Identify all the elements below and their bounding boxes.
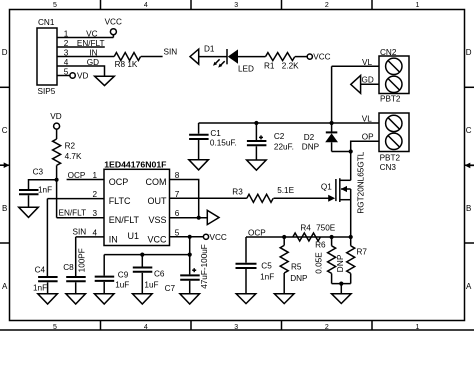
svg-text:PBT2: PBT2 xyxy=(380,95,401,104)
svg-text:VCC: VCC xyxy=(147,234,167,244)
svg-text:GD: GD xyxy=(362,76,374,85)
svg-text:22uF.: 22uF. xyxy=(274,142,294,151)
svg-text:2: 2 xyxy=(325,324,329,331)
svg-text:1: 1 xyxy=(415,2,419,9)
svg-text:1uF: 1uF xyxy=(144,281,158,290)
svg-text:R8 1K: R8 1K xyxy=(115,60,138,69)
svg-text:750E: 750E xyxy=(316,223,336,232)
svg-text:4: 4 xyxy=(144,324,148,331)
svg-text:GD: GD xyxy=(87,58,99,67)
svg-text:SIN: SIN xyxy=(164,48,178,57)
svg-text:OCP: OCP xyxy=(248,229,266,238)
svg-text:1nF: 1nF xyxy=(33,283,47,292)
svg-text:3: 3 xyxy=(92,209,97,218)
svg-text:4: 4 xyxy=(92,228,97,237)
svg-text:VD: VD xyxy=(50,112,61,121)
svg-text:CN3: CN3 xyxy=(380,163,397,172)
svg-text:D1: D1 xyxy=(204,45,215,54)
svg-text:OCP: OCP xyxy=(68,171,86,180)
svg-text:SIN: SIN xyxy=(73,228,87,237)
svg-text:D: D xyxy=(2,48,8,57)
svg-text:1nF: 1nF xyxy=(38,185,52,194)
svg-text:4: 4 xyxy=(64,58,69,67)
svg-text:2: 2 xyxy=(92,190,97,199)
svg-text:EN/FLT: EN/FLT xyxy=(109,215,140,225)
svg-text:VSS: VSS xyxy=(148,215,166,225)
svg-text:A: A xyxy=(466,282,472,291)
svg-text:0.15uF.: 0.15uF. xyxy=(210,139,237,148)
svg-text:1: 1 xyxy=(415,324,419,331)
svg-text:1: 1 xyxy=(92,171,97,180)
svg-text:IN: IN xyxy=(109,234,118,244)
svg-text:7: 7 xyxy=(175,190,180,199)
svg-text:C7: C7 xyxy=(165,284,176,293)
svg-text:OP: OP xyxy=(362,132,374,141)
svg-text:R7: R7 xyxy=(357,248,368,257)
svg-text:C: C xyxy=(2,126,8,135)
svg-text:PBT2: PBT2 xyxy=(380,154,401,163)
svg-text:B: B xyxy=(466,204,471,213)
svg-text:VCC: VCC xyxy=(313,53,330,62)
svg-text:5: 5 xyxy=(175,228,180,237)
svg-text:R5: R5 xyxy=(291,263,302,272)
svg-text:EN/FLT: EN/FLT xyxy=(59,209,87,218)
svg-text:IN: IN xyxy=(89,48,97,57)
svg-text:100PF: 100PF xyxy=(77,248,86,272)
svg-text:C4: C4 xyxy=(35,266,46,275)
svg-text:U1: U1 xyxy=(128,231,140,241)
svg-text:4.7K: 4.7K xyxy=(65,152,82,161)
svg-text:5: 5 xyxy=(53,324,57,331)
svg-text:8: 8 xyxy=(175,171,180,180)
svg-text:VD: VD xyxy=(77,71,88,80)
svg-text:VL: VL xyxy=(362,114,372,123)
svg-text:R1: R1 xyxy=(264,62,275,71)
svg-text:1ED44176N01F: 1ED44176N01F xyxy=(104,160,166,170)
svg-text:R3: R3 xyxy=(232,188,243,197)
svg-text:EN/FLT: EN/FLT xyxy=(77,39,105,48)
svg-text:C2: C2 xyxy=(274,132,285,141)
svg-text:VC: VC xyxy=(86,29,97,38)
svg-text:3: 3 xyxy=(234,2,238,9)
svg-text:1: 1 xyxy=(64,29,69,38)
svg-text:2: 2 xyxy=(325,2,329,9)
svg-text:Q1: Q1 xyxy=(321,183,332,192)
svg-text:4: 4 xyxy=(144,2,148,9)
svg-text:1nF: 1nF xyxy=(260,272,274,281)
svg-text:R2: R2 xyxy=(65,142,76,151)
svg-text:VCC: VCC xyxy=(105,18,122,27)
svg-text:D2: D2 xyxy=(304,133,315,142)
svg-text:R6: R6 xyxy=(315,241,326,250)
svg-text:3: 3 xyxy=(234,324,238,331)
svg-text:DNP: DNP xyxy=(302,143,320,152)
svg-text:C9: C9 xyxy=(118,271,129,280)
svg-text:R4: R4 xyxy=(300,223,311,232)
svg-text:OCP: OCP xyxy=(109,177,129,187)
svg-text:RGT20NL65GTL: RGT20NL65GTL xyxy=(357,151,366,213)
svg-text:C3: C3 xyxy=(33,168,44,177)
svg-text:2: 2 xyxy=(64,39,69,48)
svg-text:SIP5: SIP5 xyxy=(38,87,56,96)
svg-text:FLTC: FLTC xyxy=(109,196,131,206)
svg-text:OUT: OUT xyxy=(148,196,168,206)
svg-text:47uF-100uF: 47uF-100uF xyxy=(200,244,209,289)
svg-text:CN1: CN1 xyxy=(38,18,55,27)
svg-text:2.2K: 2.2K xyxy=(282,62,299,71)
svg-text:C5: C5 xyxy=(261,261,272,270)
svg-text:DNP: DNP xyxy=(336,254,345,272)
svg-text:C8: C8 xyxy=(63,263,74,272)
svg-text:D: D xyxy=(466,48,472,57)
svg-text:DNP: DNP xyxy=(290,274,308,283)
svg-text:1uF: 1uF xyxy=(115,281,129,290)
svg-text:5.1E: 5.1E xyxy=(277,186,294,195)
svg-text:COM: COM xyxy=(146,177,167,187)
svg-text:6: 6 xyxy=(175,209,180,218)
svg-text:C6: C6 xyxy=(154,270,165,279)
svg-text:C1: C1 xyxy=(210,129,221,138)
svg-text:LED: LED xyxy=(238,64,254,73)
svg-text:B: B xyxy=(2,204,7,213)
svg-text:A: A xyxy=(2,282,8,291)
svg-text:3: 3 xyxy=(64,48,69,57)
svg-text:5: 5 xyxy=(64,67,69,76)
svg-text:5: 5 xyxy=(53,2,57,9)
svg-text:C: C xyxy=(466,126,472,135)
svg-text:0.05E: 0.05E xyxy=(314,252,323,274)
svg-text:VCC: VCC xyxy=(210,233,227,242)
